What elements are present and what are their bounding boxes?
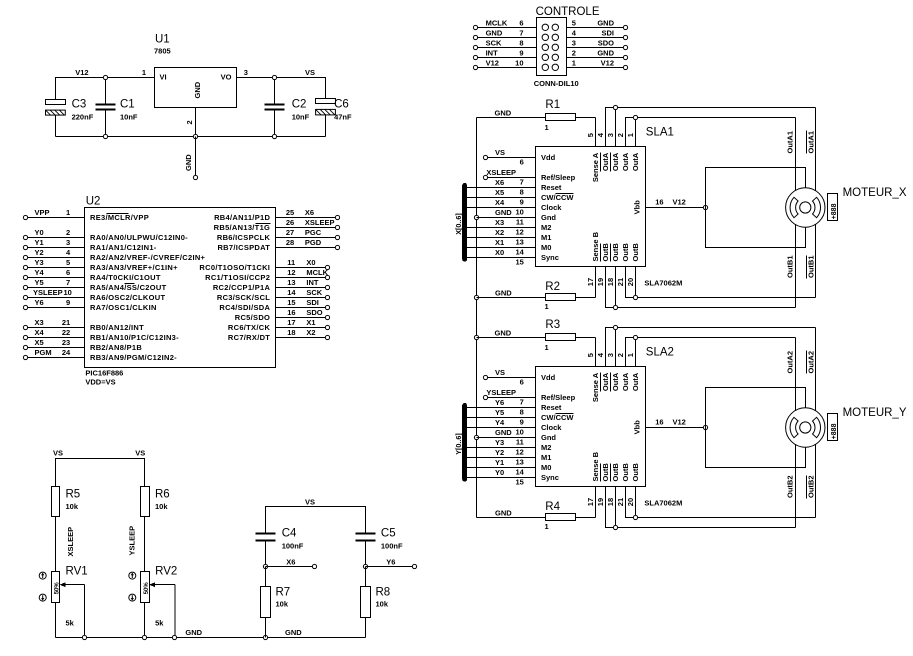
wire OutA-bar vertical to motor	[815, 328, 817, 518]
svg-text:Y4: Y4	[35, 268, 45, 277]
SLA1 pin 7 wire (XSLEEP)	[488, 177, 536, 179]
wire OutB-bar pins 19,18 rail	[606, 267, 796, 308]
motor rotor circle	[800, 202, 811, 213]
wire OutB-bar pins 19,18 rail	[606, 487, 796, 528]
svg-text:R7: R7	[276, 586, 291, 598]
motor display box +888	[828, 414, 838, 441]
svg-text:VS: VS	[305, 68, 315, 77]
wire R2 to pin 17	[576, 297, 596, 299]
svg-text:GND: GND	[495, 289, 512, 298]
wire Sense B pin 17 down	[595, 487, 597, 518]
wire VS rail over R5 R6	[56, 459, 145, 487]
U2 pin 28 wire (PGD)	[276, 247, 336, 249]
SLA1 pin 6 wire (VS)	[488, 157, 536, 159]
svg-text:RC1/T1OSI/CCP2: RC1/T1OSI/CCP2	[205, 273, 270, 282]
svg-text:VI: VI	[160, 72, 167, 81]
svg-text:16: 16	[655, 418, 663, 427]
overbar SS on U2 pin 7	[125, 283, 135, 285]
U1 pin 2 wire	[195, 108, 197, 137]
svg-text:X6: X6	[286, 557, 295, 566]
SLA1 pin 14 wire (X1)	[465, 247, 536, 249]
junction GND rail / R2	[474, 295, 478, 299]
svg-text:VDD=VS: VDD=VS	[85, 378, 115, 387]
terminal Y2	[23, 255, 27, 259]
svg-text:10: 10	[515, 59, 523, 68]
svg-text:OutA: OutA	[601, 152, 610, 171]
overbar OutA1	[806, 131, 808, 154]
ground terminal	[193, 175, 197, 179]
wire R3 to Sense A pin 5	[576, 338, 596, 367]
terminal MCLK left	[473, 25, 477, 29]
svg-text:RB7/ICSPDAT: RB7/ICSPDAT	[217, 243, 270, 252]
svg-text:OutB2: OutB2	[807, 476, 816, 499]
svg-text:R3: R3	[545, 319, 560, 331]
svg-text:21: 21	[62, 318, 70, 327]
svg-text:GND: GND	[597, 49, 614, 58]
svg-text:OutA: OutA	[621, 372, 630, 391]
svg-text:YSLEEP: YSLEEP	[486, 388, 516, 397]
SLA2 pin 6 wire (VS)	[488, 377, 536, 379]
svg-text:OutB2: OutB2	[786, 476, 795, 499]
svg-text:CW/CCW: CW/CCW	[541, 413, 574, 422]
terminal Y6	[23, 305, 27, 309]
svg-text:Ref/Sleep: Ref/Sleep	[541, 393, 576, 402]
terminal SCK	[325, 295, 329, 299]
svg-text:RV2: RV2	[155, 566, 177, 578]
svg-text:VS: VS	[305, 497, 315, 506]
overbar OutA2	[806, 351, 808, 374]
U2 pin 23 wire (X5)	[28, 347, 85, 349]
wire OutA rail (pins 2,1)	[626, 338, 796, 367]
terminal V12 right	[623, 65, 627, 69]
R7 top lead	[265, 567, 267, 587]
U2 pin 5 wire (Y3)	[28, 267, 85, 269]
svg-text:5: 5	[586, 133, 595, 137]
wire X6 stub	[266, 566, 313, 568]
SLA2 pin 15 wire (Y0)	[465, 477, 536, 479]
svg-text:16: 16	[287, 308, 295, 317]
svg-text:R1: R1	[545, 99, 560, 111]
overbar bottom OutB pin 19	[600, 244, 602, 262]
svg-text:Y0: Y0	[495, 468, 504, 477]
svg-text:M2: M2	[541, 443, 551, 452]
wire Vbb to V12	[646, 207, 706, 209]
wire OutB pins 21,20 rail	[626, 267, 816, 298]
svg-text:C4: C4	[282, 528, 297, 540]
R7 bottom lead	[265, 618, 267, 638]
junction Y6 node	[363, 564, 367, 568]
terminal PGD	[335, 245, 339, 249]
terminal MCLK	[325, 275, 329, 279]
svg-text:18: 18	[606, 498, 615, 506]
svg-text:RB6/ICSPCLK: RB6/ICSPCLK	[217, 233, 271, 242]
svg-text:Y6: Y6	[495, 398, 504, 407]
junction R7/GND	[263, 635, 267, 639]
svg-text:GND: GND	[185, 628, 202, 637]
svg-text:17: 17	[287, 318, 295, 327]
svg-text:10k: 10k	[155, 502, 168, 511]
wire GND to R4	[477, 517, 546, 519]
svg-text:Sense B: Sense B	[591, 451, 600, 481]
svg-text:Y5: Y5	[495, 408, 504, 417]
svg-text:VO: VO	[221, 72, 232, 81]
R8 top lead	[365, 567, 367, 587]
svg-text:18: 18	[606, 278, 615, 286]
svg-text:5k: 5k	[155, 618, 164, 627]
svg-text:RC7/RX/DT: RC7/RX/DT	[228, 333, 270, 342]
bus Y[0..6]	[462, 405, 467, 479]
resistor R7 body	[261, 587, 271, 618]
svg-text:GND: GND	[495, 428, 512, 437]
svg-text:OutA: OutA	[621, 152, 630, 171]
U2 pin 22 wire (X4)	[28, 337, 85, 339]
overbar top OutA pin 3	[610, 153, 612, 172]
wire R1 to Sense A pin 5	[576, 118, 596, 147]
svg-text:7: 7	[519, 29, 523, 38]
svg-text:X1: X1	[495, 238, 504, 247]
C1 bottom lead	[105, 110, 107, 137]
wire OutA rail (pins 2,1)	[626, 118, 796, 147]
SLA1 pin 13 wire (X2)	[465, 237, 536, 239]
wire motor common loop	[706, 168, 806, 248]
connector J1 body	[537, 18, 567, 76]
svg-text:2: 2	[66, 228, 70, 237]
svg-text:OutA: OutA	[631, 152, 640, 171]
svg-text:18: 18	[287, 328, 295, 337]
svg-text:15: 15	[287, 298, 295, 307]
svg-text:OutA2: OutA2	[786, 351, 795, 374]
connector pin circles	[542, 24, 558, 70]
svg-text:15: 15	[515, 478, 523, 487]
svg-text:Y1: Y1	[35, 238, 44, 247]
svg-text:8: 8	[520, 408, 524, 417]
svg-text:5k: 5k	[66, 618, 75, 627]
svg-text:220nF: 220nF	[72, 113, 94, 122]
svg-text:21: 21	[616, 498, 625, 506]
SLA2 pin 14 wire (Y1)	[465, 467, 536, 469]
microcontroller U2 body	[85, 208, 276, 368]
SLA2 pin 9 wire (Y5)	[465, 417, 536, 419]
svg-text:XSLEEP: XSLEEP	[66, 527, 75, 557]
svg-text:RC0/T1OSO/T1CKI: RC0/T1OSO/T1CKI	[199, 263, 270, 272]
junction RV1 wiper/GND	[82, 635, 86, 639]
svg-text:RC6/TX/CK: RC6/TX/CK	[228, 323, 271, 332]
connector pin 5 wire (GND)	[567, 27, 624, 29]
svg-text:Y1: Y1	[495, 458, 504, 467]
junction pin1/OutA rail	[633, 335, 637, 339]
svg-text:MOTEUR_X: MOTEUR_X	[843, 187, 907, 199]
svg-text:6: 6	[520, 158, 524, 167]
U2 pin 4 wire (Y2)	[28, 257, 85, 259]
svg-text:PIC16F886: PIC16F886	[85, 368, 123, 377]
svg-text:RV1: RV1	[66, 566, 88, 578]
svg-text:RB4/AN11/P1D: RB4/AN11/P1D	[214, 213, 270, 222]
svg-text:1: 1	[626, 353, 635, 357]
svg-text:14: 14	[515, 248, 524, 257]
svg-text:Y4: Y4	[495, 418, 505, 427]
capacitor C3 positive plate	[46, 100, 66, 105]
svg-text:OutA: OutA	[611, 152, 620, 171]
SLA2 pin 7 wire (YSLEEP)	[488, 397, 536, 399]
terminal GND right	[623, 55, 627, 59]
svg-text:X[0..6]: X[0..6]	[454, 213, 463, 235]
svg-text:RC3/SCK/SCL: RC3/SCK/SCL	[217, 293, 270, 302]
wire Vbb to V12	[646, 427, 706, 429]
svg-text:INT: INT	[486, 49, 499, 58]
svg-text:X5: X5	[35, 338, 44, 347]
SLA1 pin 8 wire (X6)	[465, 187, 536, 189]
svg-text:Reset: Reset	[541, 403, 562, 412]
U2 pin 9 wire (Y6)	[28, 307, 85, 309]
svg-text:15: 15	[515, 258, 523, 267]
svg-text:SCK: SCK	[486, 39, 502, 48]
svg-text:OutB: OutB	[601, 463, 610, 482]
overbar top OutA pin 4	[600, 153, 602, 172]
svg-text:Reset: Reset	[541, 183, 562, 192]
U2 pin 15 wire (SDI)	[276, 307, 326, 309]
svg-text:RA4/T0CKI/C1OUT: RA4/T0CKI/C1OUT	[90, 273, 161, 282]
wire VS rail over C4 C5	[266, 507, 366, 534]
overbar CCW on SLA2	[556, 413, 574, 415]
svg-text:5: 5	[586, 353, 595, 357]
svg-text:OutB: OutB	[611, 463, 620, 482]
svg-text:OutB1: OutB1	[807, 256, 816, 279]
svg-text:V12: V12	[75, 68, 88, 77]
U2 pin 6 wire (Y4)	[28, 277, 85, 279]
terminal X1	[325, 325, 329, 329]
svg-text:OutA1: OutA1	[786, 131, 795, 154]
svg-text:16: 16	[655, 198, 663, 207]
svg-text:11: 11	[516, 438, 524, 447]
wire motor common loop	[706, 388, 806, 468]
svg-text:19: 19	[596, 278, 605, 286]
svg-text:OutA: OutA	[631, 372, 640, 391]
SLA1 pin 9 wire (X5)	[465, 197, 536, 199]
svg-text:Sense A: Sense A	[591, 152, 600, 182]
svg-text:Y6: Y6	[35, 298, 44, 307]
svg-text:SCK: SCK	[306, 288, 322, 297]
motor display box +888	[828, 194, 838, 221]
svg-text:VPP: VPP	[35, 208, 50, 217]
svg-text:7: 7	[520, 178, 524, 187]
svg-text:RB5/AN13/T1G: RB5/AN13/T1G	[214, 223, 271, 232]
RV2 bottom lead	[144, 603, 146, 638]
svg-text:OutB: OutB	[621, 463, 630, 482]
SLA2 pin 13 wire (Y2)	[465, 457, 536, 459]
junction GND/U1 pin2	[193, 134, 197, 138]
overbar top OutA pin 4	[600, 373, 602, 392]
svg-text:Y5: Y5	[35, 278, 44, 287]
svg-text:10k: 10k	[376, 600, 389, 609]
svg-text:OutA1: OutA1	[807, 131, 816, 154]
svg-text:MCLK: MCLK	[306, 268, 328, 277]
terminal X6	[335, 215, 339, 219]
svg-text:13: 13	[287, 278, 295, 287]
terminal GND right	[623, 25, 627, 29]
svg-text:Sync: Sync	[541, 473, 559, 482]
svg-text:10k: 10k	[66, 502, 79, 511]
svg-text:Vdd: Vdd	[541, 373, 556, 382]
svg-text:27: 27	[286, 228, 294, 237]
svg-text:YSLEEP: YSLEEP	[33, 288, 63, 297]
svg-text:Sense A: Sense A	[591, 372, 600, 402]
wire OutB pins 21,20 rail	[626, 487, 816, 518]
svg-text:Clock: Clock	[541, 423, 562, 432]
svg-text:VS: VS	[53, 448, 63, 457]
terminal SDO	[325, 315, 329, 319]
svg-text:RE3/MCLR/VPP: RE3/MCLR/VPP	[90, 213, 149, 222]
wire Y6 stub	[366, 566, 414, 568]
svg-text:11: 11	[516, 218, 524, 227]
overbar bottom OutB pin 18	[610, 464, 612, 482]
resistor R2 body	[546, 294, 576, 301]
svg-text:Gnd: Gnd	[541, 433, 556, 442]
junction GND rail / SLA1 Gnd	[474, 215, 478, 219]
svg-text:XSLEEP: XSLEEP	[305, 218, 335, 227]
ground rail wire under U1	[56, 136, 326, 138]
svg-text:Clock: Clock	[541, 203, 562, 212]
svg-text:1: 1	[545, 343, 549, 352]
terminal Y1	[23, 245, 27, 249]
svg-text:OutB: OutB	[611, 243, 620, 262]
svg-text:12: 12	[287, 268, 295, 277]
svg-text:M1: M1	[541, 233, 551, 242]
svg-text:Y2: Y2	[495, 448, 504, 457]
junction RV2/GND	[142, 635, 146, 639]
U2 pin 24 wire (PGM)	[28, 357, 85, 359]
svg-text:X2: X2	[306, 328, 315, 337]
resistor R5 body	[52, 487, 60, 517]
svg-text:Y[0..6]: Y[0..6]	[454, 433, 463, 455]
svg-text:6: 6	[66, 268, 70, 277]
terminal VS	[483, 155, 487, 159]
svg-text:17: 17	[586, 278, 595, 286]
SLA2 pin 12 wire (Y3)	[465, 447, 536, 449]
SLA1 pin 10 wire (X4)	[465, 207, 536, 209]
svg-text:R2: R2	[545, 281, 560, 293]
overbar bottom OutB pin 19	[600, 464, 602, 482]
terminal X0	[325, 265, 329, 269]
svg-text:100nF: 100nF	[381, 541, 403, 550]
svg-text:RC2/CCP1/P1A: RC2/CCP1/P1A	[213, 283, 271, 292]
svg-text:GND: GND	[193, 81, 202, 98]
svg-text:RC5/SDO: RC5/SDO	[235, 313, 270, 322]
svg-text:GND: GND	[495, 109, 512, 118]
svg-text:Sense B: Sense B	[591, 231, 600, 261]
svg-text:OutA: OutA	[611, 372, 620, 391]
svg-text:10nF: 10nF	[120, 113, 138, 122]
U2 pin 7 wire (Y5)	[28, 287, 85, 289]
svg-text:GND: GND	[495, 208, 512, 217]
svg-text:21: 21	[616, 278, 625, 286]
svg-text:Y3: Y3	[495, 438, 504, 447]
SLA2 pin 11 wire (GND)	[477, 437, 536, 439]
RV1 down-adjust symbol	[39, 594, 46, 601]
svg-text:1: 1	[545, 123, 549, 132]
svg-text:YSLEEP: YSLEEP	[127, 526, 136, 556]
svg-text:10: 10	[63, 288, 71, 297]
svg-text:25: 25	[286, 208, 294, 217]
terminal VS	[483, 375, 487, 379]
bus X[0..6]	[462, 185, 467, 259]
wire OutA-bar vertical to motor	[815, 108, 817, 298]
RV1 wiper arrow	[60, 582, 85, 637]
C6 bottom lead	[325, 115, 327, 137]
svg-text:9: 9	[520, 198, 524, 207]
svg-text:3: 3	[66, 238, 70, 247]
svg-text:100nF: 100nF	[282, 541, 304, 550]
terminal Y5	[23, 285, 27, 289]
svg-text:9: 9	[520, 418, 524, 427]
junction pin3/OutA-bar rail	[613, 325, 617, 329]
terminal X2	[325, 335, 329, 339]
R8 bottom lead	[365, 618, 367, 638]
junction pin20/OutB rail	[633, 515, 637, 519]
svg-text:13: 13	[515, 458, 523, 467]
terminal X5	[23, 345, 27, 349]
wire GND bottom rail	[56, 637, 366, 639]
wire GND to R3	[477, 337, 546, 339]
svg-text:C1: C1	[120, 99, 135, 111]
motor MOTEUR_Y body	[786, 408, 825, 447]
svg-text:PGD: PGD	[305, 238, 322, 247]
svg-text:RB1/AN10/P1C/C12IN3-: RB1/AN10/P1C/C12IN3-	[90, 333, 179, 342]
terminal INT left	[473, 55, 477, 59]
svg-text:10k: 10k	[276, 600, 289, 609]
svg-text:OutB: OutB	[621, 243, 630, 262]
svg-text:OutA2: OutA2	[807, 351, 816, 374]
junction X6 node	[263, 564, 267, 568]
U2 pin 13 wire (INT)	[276, 287, 326, 289]
U2 pin 17 wire (X1)	[276, 327, 326, 329]
overbar OutB1	[806, 256, 808, 279]
svg-text:3: 3	[572, 39, 576, 48]
svg-text:1: 1	[545, 302, 549, 311]
svg-text:6: 6	[519, 19, 523, 28]
terminal INT	[325, 285, 329, 289]
svg-text:OutA: OutA	[601, 372, 610, 391]
U2 pin 3 wire (Y1)	[28, 247, 85, 249]
svg-text:VS: VS	[135, 448, 145, 457]
svg-text:19: 19	[596, 498, 605, 506]
svg-text:3: 3	[606, 133, 615, 137]
junction RV2 wiper/GND	[172, 635, 176, 639]
terminal X3	[23, 325, 27, 329]
svg-text:Vdd: Vdd	[541, 153, 556, 162]
junction GND/C1	[103, 134, 107, 138]
svg-text:GND: GND	[486, 29, 503, 38]
terminal X4	[23, 335, 27, 339]
svg-text:24: 24	[62, 348, 71, 357]
svg-text:VS: VS	[495, 148, 505, 157]
RV2 up-adjust symbol	[129, 572, 136, 579]
svg-text:13: 13	[515, 238, 523, 247]
U2 pin 2 wire (Y0)	[28, 237, 85, 239]
svg-text:MOTEUR_Y: MOTEUR_Y	[843, 407, 907, 419]
svg-text:Ref/Sleep: Ref/Sleep	[541, 173, 576, 182]
svg-text:9: 9	[519, 49, 523, 58]
overbar OutB2	[806, 476, 808, 499]
svg-text:50%: 50%	[144, 582, 150, 595]
junction V12 / motor common	[703, 205, 707, 209]
junction GND rail / R3	[474, 335, 478, 339]
svg-text:+888: +888	[831, 423, 838, 439]
U2 pin 25 wire (X6)	[276, 217, 336, 219]
capacitor C6 positive plate	[316, 99, 336, 104]
svg-text:+888: +888	[831, 203, 838, 219]
svg-text:X5: X5	[495, 188, 504, 197]
wire GND to R1	[477, 117, 546, 119]
